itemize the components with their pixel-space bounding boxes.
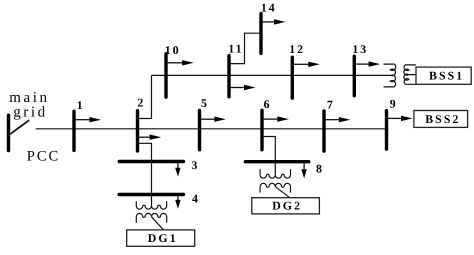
load arrow bus 13 <box>356 61 380 66</box>
load arrow bus 2 <box>139 135 161 140</box>
svg-text:1: 1 <box>77 98 83 112</box>
svg-text:grid: grid <box>13 105 48 121</box>
svg-text:BSS1: BSS1 <box>429 69 464 83</box>
load arrow bus 8 (down) <box>301 164 306 179</box>
svg-text:14: 14 <box>261 0 277 14</box>
svg-text:3: 3 <box>192 158 198 172</box>
svg-text:DG2: DG2 <box>272 199 302 213</box>
svg-text:13: 13 <box>352 42 368 56</box>
transformer T-BSS1 left winding <box>384 64 396 87</box>
bus 8 bar <box>245 160 308 163</box>
wire jog bus2 to riser <box>139 75 152 118</box>
load arrow bus 1 <box>76 117 101 122</box>
svg-text:2: 2 <box>137 96 143 110</box>
svg-text:DG1: DG1 <box>148 231 178 245</box>
bus 11 <box>227 56 230 97</box>
upper feeder wire <box>152 74 391 76</box>
svg-text:PCC: PCC <box>27 148 60 164</box>
load arrow bus 12 <box>294 62 320 67</box>
DG2 box <box>252 198 320 214</box>
bus 2 <box>136 111 139 151</box>
wire step from bus 11 up to bus 14 <box>229 33 261 63</box>
svg-text:main: main <box>9 90 49 106</box>
bus 12 <box>291 57 294 98</box>
svg-text:8: 8 <box>316 162 322 176</box>
load arrow bus 4 (down) <box>175 196 180 208</box>
svg-text:12: 12 <box>289 42 305 56</box>
bus 5 <box>198 111 201 150</box>
transformer T-DG2 bottom winding <box>260 183 290 192</box>
svg-text:BSS2: BSS2 <box>425 112 460 126</box>
transformer T-DG1 bottom winding <box>136 213 166 222</box>
bus 4 bar <box>119 193 183 196</box>
load arrow bus 14 <box>263 19 286 24</box>
bus 13 <box>353 56 356 95</box>
wire T-DG2 to DG2 box (diagonal) <box>275 187 290 198</box>
main grid bus bar <box>7 115 10 150</box>
bus 3 bar <box>119 160 183 163</box>
load arrow bus 10 <box>168 60 194 65</box>
PCC switch blade <box>10 120 29 134</box>
svg-text:6: 6 <box>264 97 270 111</box>
load arrow bus 5 <box>201 117 226 122</box>
svg-text:9: 9 <box>390 96 396 110</box>
load arrow bus 11 <box>231 85 256 90</box>
svg-text:4: 4 <box>192 192 198 206</box>
wire T-DG1 to DG1 box (diagonal) <box>152 217 164 230</box>
wire bus6 down to DG2 branch <box>264 137 276 175</box>
transformer T-DG1 top winding <box>136 201 166 209</box>
bus 6 <box>260 110 263 149</box>
svg-text:5: 5 <box>201 96 207 110</box>
BSS2 box <box>414 111 468 128</box>
bus 9 <box>385 111 388 150</box>
svg-text:10: 10 <box>165 43 181 57</box>
load arrow bus 6 <box>264 116 289 121</box>
bus 14 <box>259 14 262 54</box>
BSS1 box <box>416 67 471 84</box>
transformer T-DG2 top winding <box>260 169 290 178</box>
bus 1 <box>72 111 75 150</box>
arrow bus 9 to BSS2 <box>388 116 413 121</box>
bus 10 <box>164 54 167 97</box>
transformer T-BSS1 right winding <box>404 65 416 84</box>
load arrow bus 3 (down) <box>175 163 180 176</box>
DG1 box <box>127 230 195 246</box>
wire bus2 down to DG1 branch <box>139 143 152 206</box>
bus 7 <box>322 111 325 151</box>
svg-text:7: 7 <box>327 98 333 112</box>
main feeder wire <box>36 128 387 130</box>
load arrow bus 7 <box>326 117 351 122</box>
svg-text:11: 11 <box>228 42 243 56</box>
